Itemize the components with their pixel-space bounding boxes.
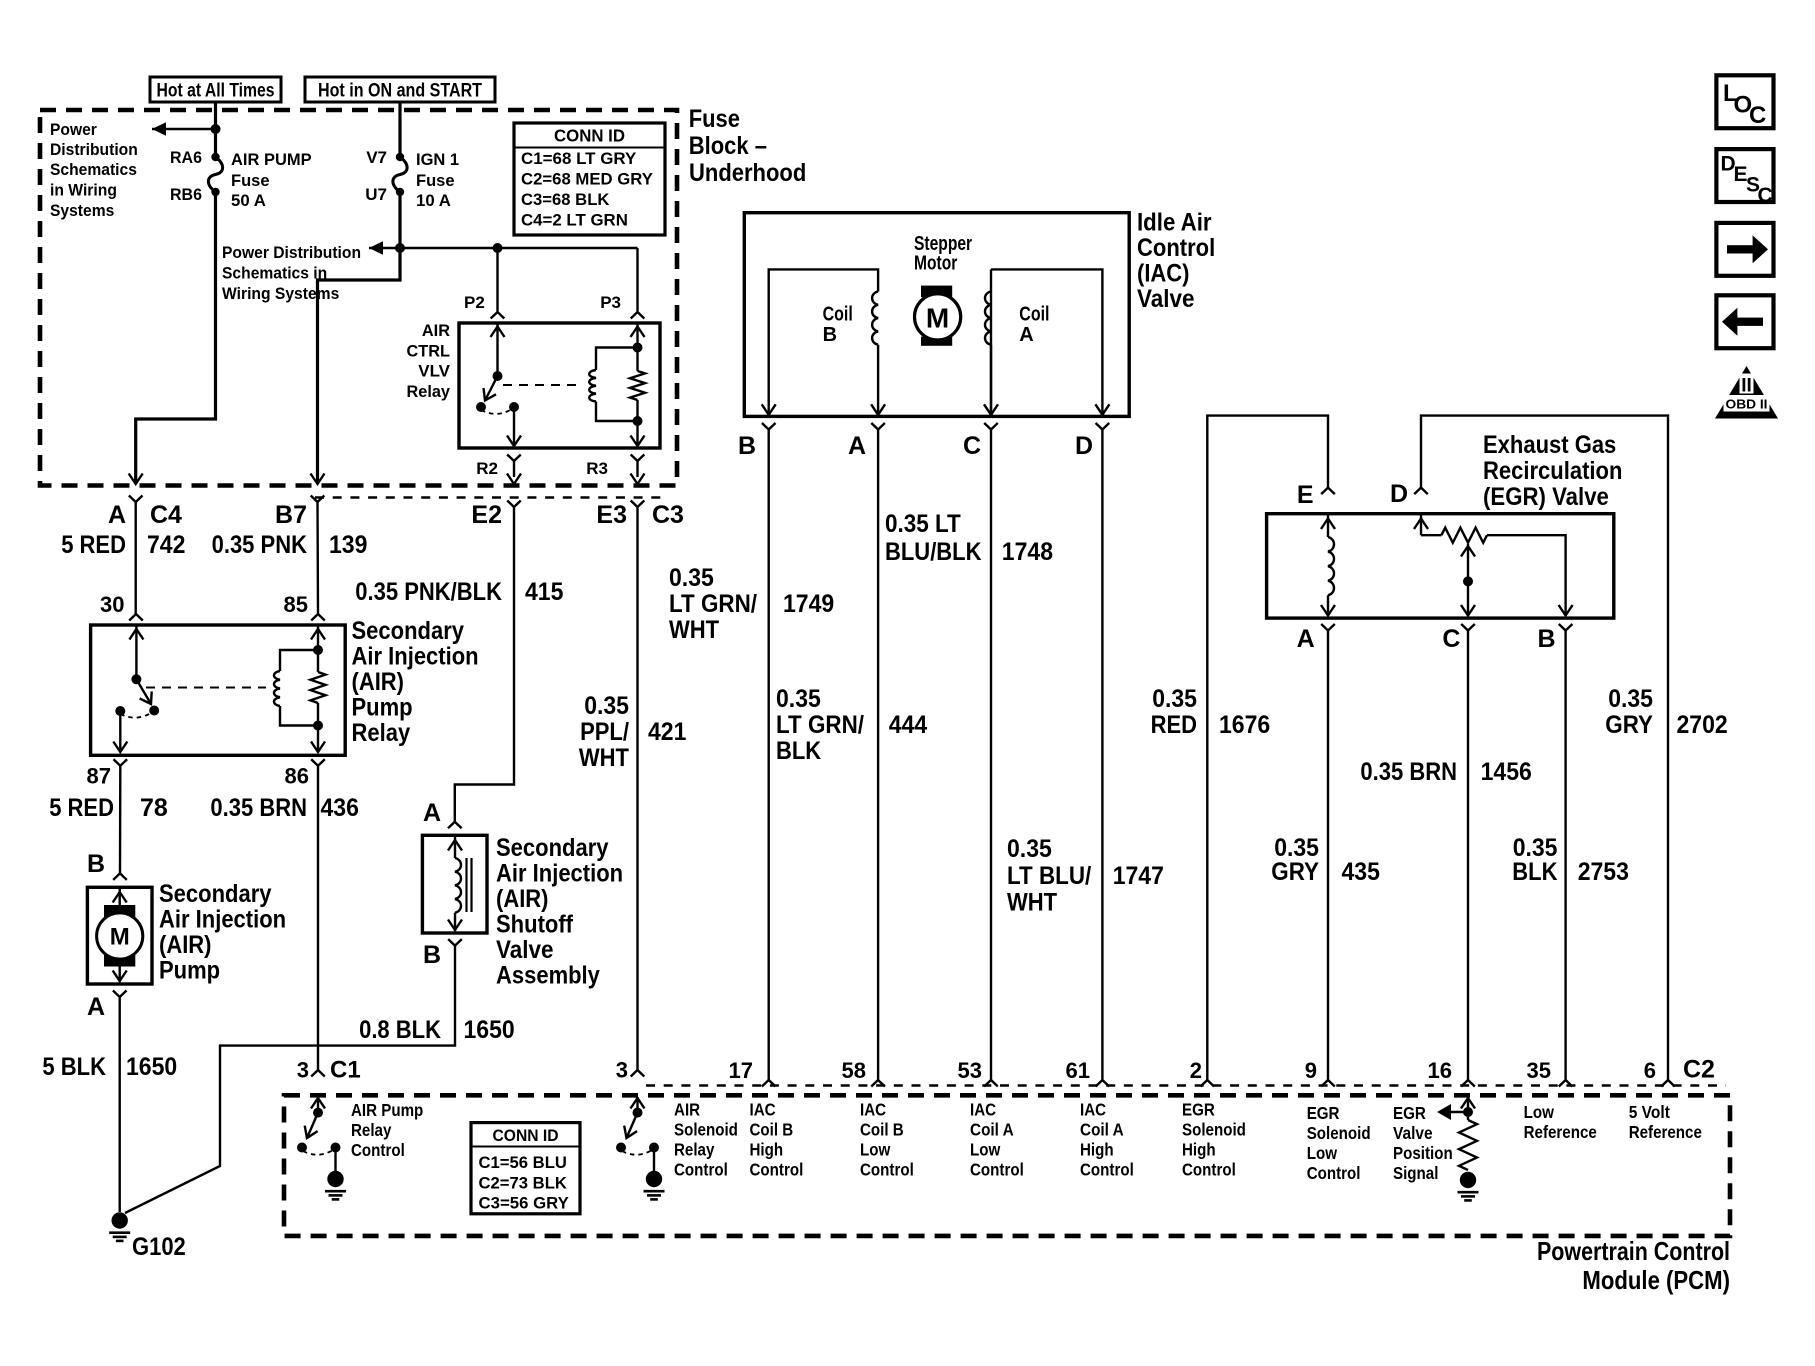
svg-text:Systems: Systems [50, 201, 114, 220]
table: CONN ID (fuse block connectors) [514, 123, 665, 235]
wire: EGR A to PCM pin 9 (ckt 435) [1327, 631, 1329, 1081]
thin dashed PCM connector row boundary [646, 1084, 1726, 1086]
icon: LOC button [1716, 75, 1773, 129]
pin label B (EGR) [1537, 625, 1555, 653]
svg-text:85: 85 [284, 592, 308, 617]
IAC coil B winding loop [762, 269, 885, 415]
shutoff valve solenoid core bars [467, 858, 472, 912]
svg-text:AIR: AIR [674, 1100, 701, 1120]
pump relay actuation dashed link [146, 687, 266, 689]
relay switch blade [484, 376, 498, 401]
svg-text:BLU/BLK: BLU/BLK [885, 538, 982, 566]
svg-text:Control: Control [1080, 1160, 1134, 1180]
svg-text:PPL/: PPL/ [580, 718, 629, 746]
svg-text:C2: C2 [1683, 1056, 1715, 1084]
junction node pump relay coil top [313, 645, 323, 655]
svg-text:CTRL: CTRL [407, 342, 451, 361]
connector fork A/C4 [129, 496, 143, 615]
fuse: AIR PUMP Fuse 50 A (RA6/RB6) [208, 153, 222, 196]
svg-text:R2: R2 [476, 459, 498, 478]
PCM driver switch for AIR pump relay control [297, 1097, 341, 1155]
svg-text:RB6: RB6 [170, 185, 202, 204]
svg-text:0.35: 0.35 [1608, 685, 1653, 713]
wire: Hot in ON and START feed to IGN 1 fuse [398, 101, 401, 157]
svg-text:(AIR): (AIR) [159, 931, 212, 959]
pin label E (EGR) [1297, 481, 1314, 509]
svg-text:E3: E3 [596, 501, 627, 529]
pump relay coil (parallel branch) [274, 650, 318, 726]
connector fork at relay pin 87 [114, 759, 128, 766]
connector label C4 [150, 501, 182, 529]
svg-text:50 A: 50 A [231, 191, 266, 210]
wire label 0.8 BLK 1650 [359, 1016, 515, 1044]
pin label R2 [476, 459, 498, 478]
label: EGR Solenoid Low Control [1307, 1103, 1371, 1183]
pin label A [108, 501, 126, 529]
pin label 16 [1428, 1058, 1452, 1083]
svg-text:Fuse: Fuse [231, 171, 270, 190]
svg-text:Low: Low [860, 1140, 891, 1160]
wire label 5 RED 742 [61, 531, 185, 559]
wire: relay pin 86 to PCM pin 3/C1 (ckt 436) [317, 766, 319, 1070]
pin label V7 [366, 148, 387, 167]
svg-text:C2=68 MED GRY: C2=68 MED GRY [521, 170, 654, 189]
svg-text:9: 9 [1305, 1058, 1317, 1083]
connector fork EGR pin B [1559, 624, 1573, 631]
svg-text:Coil B: Coil B [860, 1120, 904, 1140]
svg-text:High: High [750, 1140, 784, 1160]
svg-text:Valve: Valve [1137, 285, 1195, 313]
label: Stepper Motor [914, 233, 972, 274]
svg-text:5 RED: 5 RED [61, 531, 126, 559]
svg-text:1650: 1650 [464, 1016, 515, 1044]
wire: EGR B to PCM pin 35 (ckt 2753) [1564, 631, 1566, 1081]
wire: shutoff valve B to ground G102 (0.8 BLK 1650) [125, 946, 455, 1213]
label: Coil B [823, 304, 853, 347]
svg-text:V7: V7 [366, 148, 387, 167]
wire label 5 BLK 1650 [42, 1053, 177, 1081]
label: EGR Valve Position Signal [1393, 1103, 1453, 1183]
wire: EGR C to PCM pin 16 (ckt 1456) [1467, 631, 1469, 1081]
svg-text:35: 35 [1527, 1058, 1551, 1083]
svg-text:P2: P2 [464, 293, 485, 312]
svg-text:87: 87 [87, 764, 111, 789]
svg-text:Control: Control [1182, 1160, 1236, 1180]
pin label P3 [600, 293, 621, 312]
svg-text:C4=2 LT GRN: C4=2 LT GRN [521, 211, 628, 230]
svg-text:Valve: Valve [496, 936, 554, 964]
connector fork PCM pin 58 [871, 1080, 885, 1087]
wire label 0.35 LT GRN/WHT 1749 [669, 564, 834, 644]
svg-text:AIR PUMP: AIR PUMP [231, 150, 312, 169]
note: Power Distribution Schematics in Wiring Systems (mid) [222, 243, 361, 303]
svg-text:C3: C3 [652, 501, 684, 529]
svg-text:61: 61 [1066, 1058, 1090, 1083]
svg-text:EGR: EGR [1393, 1103, 1426, 1123]
EGR potentiometer wiper [1461, 544, 1475, 616]
connector fork EGR pin D [1414, 488, 1428, 495]
icon: DESC button [1716, 149, 1773, 207]
svg-text:Low: Low [1307, 1143, 1338, 1163]
svg-text:1748: 1748 [1002, 538, 1053, 566]
svg-text:Power: Power [50, 120, 97, 139]
svg-text:Idle Air: Idle Air [1137, 209, 1212, 237]
svg-text:U7: U7 [365, 185, 387, 204]
svg-text:Pump: Pump [159, 957, 220, 985]
svg-text:Relay: Relay [407, 382, 451, 401]
svg-text:C2=73 BLK: C2=73 BLK [479, 1173, 568, 1192]
connector fork PCM pin 61 [1096, 1080, 1110, 1087]
pin label RA6 [170, 148, 202, 167]
pin label 17 [729, 1058, 753, 1083]
pin label A (shutoff valve) [423, 799, 441, 827]
icon: back arrow button [1716, 295, 1773, 348]
svg-text:CONN ID: CONN ID [493, 1126, 559, 1145]
label: Secondary Air Injection (AIR) Shutoff Valve Assembly [496, 834, 623, 990]
svg-text:Relay: Relay [674, 1140, 715, 1160]
connector fork E2 [507, 501, 521, 508]
svg-text:IGN 1: IGN 1 [416, 150, 459, 169]
svg-text:II: II [1741, 376, 1752, 397]
svg-text:B: B [423, 941, 441, 969]
relay actuation dashed link [503, 384, 582, 386]
label: IAC Coil A High Control [1080, 1100, 1134, 1180]
svg-text:CONN ID: CONN ID [554, 126, 625, 146]
svg-text:C: C [1749, 102, 1766, 129]
label: 5 Volt Reference [1629, 1102, 1702, 1142]
svg-text:B: B [1537, 625, 1555, 653]
wire label 0.35 PNK/BLK 415 [355, 578, 563, 606]
connector fork IAC pin C [984, 423, 998, 430]
svg-text:C3=68 BLK: C3=68 BLK [521, 190, 610, 209]
svg-text:Secondary: Secondary [159, 880, 272, 908]
wire: PCM pin 2 up to EGR pin E (ckt 1676) [1207, 416, 1328, 1080]
svg-text:M: M [110, 923, 130, 950]
connector fork at R2 [507, 455, 521, 485]
svg-text:Module (PCM): Module (PCM) [1582, 1265, 1730, 1295]
connector fork at relay pin 86 [311, 759, 325, 766]
svg-text:3: 3 [616, 1058, 628, 1083]
power feed label box: Hot in ON and START [305, 77, 495, 102]
pin label 2 [1190, 1058, 1202, 1083]
pump relay switch pivot node [131, 674, 141, 684]
connector fork EGR pin C [1461, 624, 1475, 631]
label: Coil A [1019, 304, 1049, 347]
thin dashed connector boundary (E2/E3/C3 row) [315, 496, 664, 498]
wire label 0.35 PNK 139 [212, 531, 368, 559]
pin label P2 [464, 293, 485, 312]
connector fork PCM pin 17 [762, 1080, 776, 1087]
connector fork B7 [311, 496, 325, 615]
svg-text:58: 58 [842, 1058, 866, 1083]
svg-text:Pump: Pump [352, 694, 413, 722]
PCM internal ground (EGR position divider) [1458, 1172, 1479, 1201]
pin label 87 [87, 764, 111, 789]
svg-text:GRY: GRY [1605, 711, 1653, 739]
svg-text:Schematics: Schematics [50, 160, 137, 179]
svg-text:1456: 1456 [1481, 758, 1532, 786]
pin label C (EGR) [1442, 625, 1460, 653]
label: EGR Solenoid High Control [1182, 1100, 1246, 1180]
relay switch contact nodes and travel arc [476, 402, 519, 414]
svg-text:5 Volt: 5 Volt [1629, 1102, 1670, 1122]
connector fork at pump pin B [113, 873, 127, 880]
wire: IAC A to PCM pin 58 (ckt 444) [877, 430, 879, 1081]
svg-text:C1=56 BLU: C1=56 BLU [479, 1153, 567, 1172]
svg-text:421: 421 [648, 718, 686, 746]
svg-text:High: High [1080, 1140, 1114, 1160]
connector fork at shutoff valve pin A [448, 822, 462, 829]
svg-text:Solenoid: Solenoid [674, 1120, 738, 1140]
module: Powertrain Control Module (PCM) dashed box [284, 1095, 1730, 1236]
svg-text:Fuse: Fuse [416, 171, 455, 190]
svg-text:Valve: Valve [1393, 1123, 1433, 1143]
pin label A (EGR) [1297, 625, 1315, 653]
svg-text:Exhaust Gas: Exhaust Gas [1483, 431, 1616, 459]
svg-text:Position: Position [1393, 1143, 1453, 1163]
svg-text:436: 436 [321, 794, 359, 822]
wire label 0.35 LT BLU/BLK 1748 [885, 510, 1053, 566]
pin label B (pump) [87, 850, 105, 878]
PCM internal ground (AIR solenoid relay driver) [644, 1148, 665, 1200]
svg-text:AIR: AIR [422, 321, 450, 340]
svg-text:C3=56 GRY: C3=56 GRY [479, 1194, 570, 1213]
pin label 86 [285, 764, 309, 789]
wire: power distribution bus to AIR CTRL VLV relay (horizontal) [369, 241, 638, 255]
svg-text:10 A: 10 A [416, 191, 451, 210]
pin label 53 [958, 1058, 982, 1083]
pin label C (IAC) [963, 432, 981, 460]
relay: Secondary Air Injection (AIR) Pump Relay box [91, 625, 346, 755]
svg-text:Control: Control [351, 1140, 405, 1160]
junction node bus/IGN1 wire [395, 243, 405, 253]
pin label 9 [1305, 1058, 1317, 1083]
svg-text:RA6: RA6 [170, 148, 202, 167]
junction node coil top [633, 343, 643, 353]
svg-text:Hot in ON and START: Hot in ON and START [318, 81, 482, 102]
svg-text:139: 139 [329, 531, 367, 559]
svg-text:Control: Control [1137, 234, 1215, 262]
relay: AIR CTRL VLV Relay box [459, 323, 660, 448]
svg-text:0.35: 0.35 [584, 692, 629, 720]
svg-text:53: 53 [958, 1058, 982, 1083]
svg-text:0.8 BLK: 0.8 BLK [359, 1016, 441, 1044]
svg-text:16: 16 [1428, 1058, 1452, 1083]
svg-text:R3: R3 [586, 459, 608, 478]
svg-text:BLK: BLK [776, 737, 821, 765]
label: AIR Pump Relay Control [351, 1100, 423, 1160]
svg-text:1749: 1749 [783, 590, 834, 618]
svg-text:A: A [848, 432, 866, 460]
svg-text:P3: P3 [600, 293, 621, 312]
svg-text:C: C [1442, 625, 1460, 653]
pump relay switched output to pin 87 [113, 711, 127, 752]
pin label 3 / C1 [297, 1057, 361, 1084]
svg-text:Fuse: Fuse [689, 105, 740, 133]
svg-text:0.35 PNK: 0.35 PNK [212, 531, 307, 559]
pump relay switch blade [136, 679, 151, 704]
PCM driver switch for AIR solenoid relay control [616, 1097, 659, 1155]
fuse block - underhood dashed boundary box [40, 110, 677, 486]
svg-text:0.35 PNK/BLK: 0.35 PNK/BLK [355, 578, 502, 606]
wire label 0.35 RED 1676 [1151, 685, 1271, 739]
svg-text:Motor: Motor [914, 252, 957, 274]
svg-text:M: M [926, 302, 949, 333]
icon: forward arrow button [1716, 223, 1773, 276]
svg-text:78: 78 [140, 794, 168, 822]
pin label 58 [842, 1058, 866, 1083]
connector fork PCM pin 53 [984, 1080, 998, 1087]
svg-text:Air Injection: Air Injection [496, 860, 623, 888]
connector fork at shutoff valve pin B [448, 939, 462, 946]
svg-text:E2: E2 [471, 501, 502, 529]
connector fork at relay pin 30 [129, 614, 143, 621]
svg-text:0.35 LT: 0.35 LT [885, 510, 961, 538]
svg-text:Underhood: Underhood [689, 159, 806, 187]
pump relay coil feed from pin 85 [311, 625, 325, 650]
motor: Secondary Air Injection (AIR) Pump box [87, 887, 152, 984]
svg-text:WHT: WHT [669, 616, 719, 644]
junction node bus/P2 branch [493, 243, 503, 253]
PCM internal ground (AIR pump relay driver) [325, 1148, 346, 1200]
svg-text:BLK: BLK [1512, 858, 1557, 886]
pin label D (IAC) [1075, 432, 1093, 460]
svg-text:B: B [87, 850, 105, 878]
svg-text:1676: 1676 [1219, 711, 1270, 739]
connector fork EGR pin A [1321, 624, 1335, 631]
svg-text:Solenoid: Solenoid [1307, 1123, 1371, 1143]
connector fork at R3 [631, 455, 645, 485]
wire: relay pin 87 to AIR pump connector B (ckt 78) [119, 766, 122, 874]
wire: E3/C3 to PCM pin 3 (ckt 421) [636, 507, 638, 1070]
wire: from IGN 1 fuse down, jog left to connector B7 [311, 192, 401, 484]
svg-text:Secondary: Secondary [352, 617, 465, 645]
wire label 0.35 BRN 1456 [1360, 758, 1531, 786]
svg-text:Powertrain Control: Powertrain Control [1537, 1236, 1730, 1266]
pump motor lead arrows [113, 889, 127, 982]
IAC stepper motor symbol M [915, 286, 961, 346]
svg-text:86: 86 [285, 764, 309, 789]
svg-text:Distribution: Distribution [50, 140, 138, 159]
table: CONN ID (PCM connectors) [471, 1123, 580, 1214]
pump relay internal resistor [311, 650, 326, 726]
fuse: IGN 1 Fuse 10 A (V7/U7) [393, 153, 407, 196]
svg-text:A: A [1019, 324, 1033, 346]
pin label D (EGR) [1390, 480, 1408, 508]
ground symbol G102 [109, 1212, 130, 1241]
svg-text:0.35: 0.35 [1007, 835, 1052, 863]
svg-text:C1: C1 [330, 1057, 361, 1084]
svg-text:IAC: IAC [860, 1100, 886, 1120]
pump relay switch contact nodes and travel arc [115, 706, 159, 718]
label: IGN 1 Fuse 10 A [416, 150, 459, 210]
valve: Exhaust Gas Recirculation (EGR) Valve box [1267, 514, 1614, 618]
svg-text:742: 742 [147, 531, 185, 559]
svg-text:1747: 1747 [1113, 862, 1164, 890]
connector fork PCM pin 2 [1201, 1080, 1215, 1087]
svg-text:Recirculation: Recirculation [1483, 457, 1622, 485]
PCM EGR valve position signal input network [1437, 1097, 1477, 1170]
pin label 35 [1527, 1058, 1551, 1083]
connector label C2 [1683, 1056, 1715, 1084]
svg-text:High: High [1182, 1140, 1216, 1160]
svg-text:0.35: 0.35 [1152, 685, 1197, 713]
svg-text:Solenoid: Solenoid [1182, 1120, 1246, 1140]
svg-text:Control: Control [860, 1160, 914, 1180]
pin label U7 [365, 185, 387, 204]
relay switched output wire to R2 [507, 407, 521, 446]
svg-text:Relay: Relay [352, 719, 411, 747]
svg-text:Air Injection: Air Injection [352, 643, 479, 671]
pin label R3 [586, 459, 608, 478]
svg-text:(IAC): (IAC) [1137, 260, 1190, 288]
wire label 5 RED 78 [49, 794, 168, 822]
label: AIR CTRL VLV Relay [407, 321, 451, 401]
svg-text:Schematics in: Schematics in [222, 264, 327, 283]
relay coil output wire to R3 [631, 421, 645, 446]
svg-text:Control: Control [674, 1160, 728, 1180]
svg-text:1650: 1650 [126, 1053, 177, 1081]
svg-text:D: D [1075, 432, 1093, 460]
pin label 3 (AIR solenoid relay control) [616, 1058, 628, 1083]
pin label E3 [596, 501, 627, 529]
relay coil branch from P3 [631, 324, 645, 348]
label: Exhaust Gas Recirculation (EGR) Valve [1483, 431, 1622, 511]
connector fork PCM pin 9 [1321, 1080, 1335, 1087]
svg-text:B: B [823, 324, 837, 346]
svg-text:2753: 2753 [1578, 858, 1629, 886]
wire: IAC D to PCM pin 61 (ckt 1747) [1101, 430, 1103, 1081]
svg-text:Reference: Reference [1524, 1122, 1597, 1142]
svg-text:Reference: Reference [1629, 1122, 1702, 1142]
pin label B (shutoff valve) [423, 941, 441, 969]
connector fork PCM pin 35 [1559, 1080, 1573, 1087]
connector fork EGR pin E [1321, 488, 1335, 495]
label: Low Reference [1524, 1102, 1597, 1142]
pin label B7 [275, 501, 307, 529]
svg-text:Control: Control [970, 1160, 1024, 1180]
wire: E2 to AIR shutoff valve pin A (ckt 415) [455, 507, 514, 822]
connector fork at P2 [491, 312, 505, 319]
junction node coil bottom [633, 416, 643, 426]
svg-text:Coil: Coil [823, 304, 853, 326]
svg-text:Hot at All Times: Hot at All Times [157, 81, 275, 102]
wire: IAC B to PCM pin 17 (ckt 1749) [768, 430, 770, 1081]
pin label B (IAC) [738, 432, 756, 460]
label: IAC Coil B Low Control [860, 1100, 914, 1180]
svg-text:Shutoff: Shutoff [496, 911, 574, 939]
junction node on AIR PUMP fuse feed [211, 124, 221, 134]
svg-text:WHT: WHT [579, 744, 629, 772]
svg-text:Coil: Coil [1019, 304, 1049, 326]
wire label 0.35 LT GRN/BLK 444 [776, 685, 927, 765]
svg-text:AIR Pump: AIR Pump [351, 1100, 423, 1120]
power feed label box: Hot at All Times [150, 77, 281, 102]
pump relay switch common from pin 30 [129, 625, 143, 679]
svg-text:EGR: EGR [1182, 1100, 1215, 1120]
connector fork PCM pin 16 [1461, 1080, 1475, 1087]
svg-text:WHT: WHT [1007, 889, 1057, 917]
connector fork PCM pin 6 [1661, 1080, 1675, 1087]
svg-text:IAC: IAC [750, 1100, 776, 1120]
connector fork PCM pin 3/C1 [311, 1070, 325, 1077]
svg-text:444: 444 [889, 711, 927, 739]
svg-text:D: D [1390, 480, 1408, 508]
valve: Idle Air Control (IAC) Valve box [744, 213, 1129, 417]
wire label 0.35 PPL/WHT 421 [579, 692, 687, 772]
svg-text:C1=68 LT GRY: C1=68 LT GRY [521, 149, 637, 168]
wire label 0.35 GRY 435 [1271, 834, 1380, 886]
